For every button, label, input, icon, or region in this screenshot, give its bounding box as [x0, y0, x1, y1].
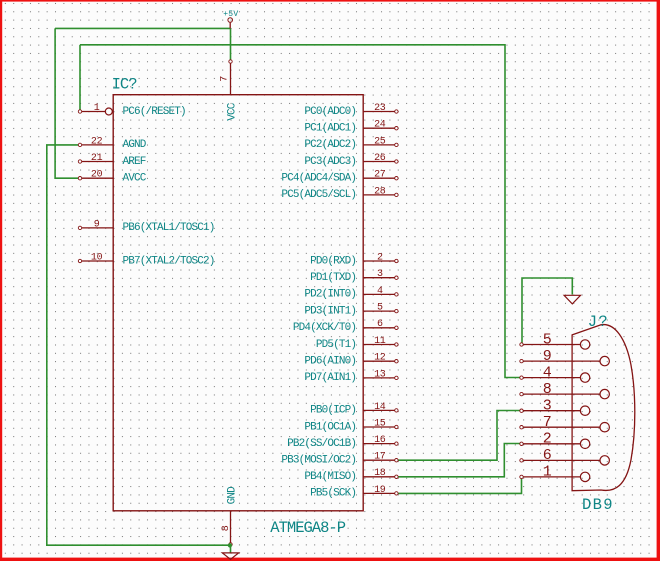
svg-text:PB0(ICP): PB0(ICP) — [310, 405, 356, 417]
svg-text:PC2(ADC2): PC2(ADC2) — [304, 139, 356, 151]
svg-text:10: 10 — [91, 252, 103, 263]
svg-text:PC4(ADC4/SDA): PC4(ADC4/SDA) — [281, 173, 356, 185]
svg-text:5: 5 — [377, 303, 383, 314]
svg-text:VCC: VCC — [226, 102, 238, 121]
svg-text:7: 7 — [220, 76, 231, 82]
svg-text:PC6(/RESET): PC6(/RESET) — [123, 106, 186, 118]
svg-text:4: 4 — [543, 364, 552, 381]
svg-text:23: 23 — [374, 103, 386, 114]
svg-text:11: 11 — [374, 336, 386, 347]
svg-text:15: 15 — [374, 418, 386, 429]
svg-text:PB6(XTAL1/TOSC1): PB6(XTAL1/TOSC1) — [123, 222, 215, 234]
svg-text:6: 6 — [543, 447, 552, 464]
svg-text:2: 2 — [543, 431, 552, 448]
svg-text:1: 1 — [543, 464, 552, 481]
svg-text:DB9: DB9 — [582, 496, 614, 514]
svg-text:PB1(OC1A): PB1(OC1A) — [304, 421, 356, 433]
svg-text:17: 17 — [374, 452, 386, 463]
svg-text:28: 28 — [374, 186, 386, 197]
svg-text:27: 27 — [374, 170, 386, 181]
svg-text:PB2(SS/OC1B): PB2(SS/OC1B) — [287, 438, 356, 450]
svg-text:PD0(RXD): PD0(RXD) — [310, 255, 356, 267]
svg-text:6: 6 — [377, 319, 383, 330]
svg-text:ATMEGA8-P: ATMEGA8-P — [270, 519, 345, 537]
svg-text:PB7(XTAL2/TOSC2): PB7(XTAL2/TOSC2) — [123, 255, 215, 267]
svg-text:25: 25 — [374, 136, 386, 147]
svg-text:PD2(INT0): PD2(INT0) — [304, 289, 356, 301]
svg-text:+5V: +5V — [223, 10, 238, 19]
svg-text:19: 19 — [374, 485, 386, 496]
svg-text:PD4(XCK/T0): PD4(XCK/T0) — [293, 322, 356, 334]
svg-text:PC5(ADC5/SCL): PC5(ADC5/SCL) — [281, 189, 356, 201]
svg-text:9: 9 — [543, 348, 552, 365]
svg-text:PD7(AIN1): PD7(AIN1) — [304, 372, 356, 384]
svg-text:PB3(MOSI/OC2): PB3(MOSI/OC2) — [281, 455, 356, 467]
svg-text:21: 21 — [91, 153, 103, 164]
svg-text:13: 13 — [374, 369, 386, 380]
svg-text:3: 3 — [377, 269, 383, 280]
svg-text:8: 8 — [543, 381, 552, 398]
svg-text:9: 9 — [94, 219, 100, 230]
svg-text:8: 8 — [221, 525, 232, 531]
svg-text:1: 1 — [94, 103, 100, 114]
svg-text:12: 12 — [374, 353, 386, 364]
svg-text:PC1(ADC1): PC1(ADC1) — [304, 123, 356, 135]
svg-text:22: 22 — [91, 136, 103, 147]
svg-text:AGND: AGND — [123, 139, 147, 151]
svg-text:5: 5 — [543, 331, 552, 348]
svg-text:IC?: IC? — [112, 75, 138, 93]
svg-text:2: 2 — [377, 252, 383, 263]
svg-text:3: 3 — [543, 398, 552, 415]
svg-text:20: 20 — [91, 170, 103, 181]
svg-text:18: 18 — [374, 468, 386, 479]
svg-text:J?: J? — [588, 313, 609, 331]
svg-text:24: 24 — [374, 120, 386, 131]
svg-text:PD6(AIN0): PD6(AIN0) — [304, 356, 356, 368]
svg-text:AREF: AREF — [123, 156, 146, 168]
svg-text:AVCC: AVCC — [123, 173, 147, 185]
svg-text:26: 26 — [374, 153, 386, 164]
svg-text:GND: GND — [226, 486, 238, 505]
svg-text:16: 16 — [374, 435, 386, 446]
svg-text:PC0(ADC0): PC0(ADC0) — [304, 106, 356, 118]
svg-text:7: 7 — [543, 414, 552, 431]
svg-text:4: 4 — [377, 286, 383, 297]
svg-text:PB4(MISO): PB4(MISO) — [304, 471, 356, 483]
svg-text:PD1(TXD): PD1(TXD) — [310, 272, 356, 284]
svg-text:PC3(ADC3): PC3(ADC3) — [304, 156, 356, 168]
svg-text:PD5(T1): PD5(T1) — [316, 339, 356, 351]
svg-text:14: 14 — [374, 402, 386, 413]
svg-text:PB5(SCK): PB5(SCK) — [310, 488, 356, 500]
svg-text:PD3(INT1): PD3(INT1) — [304, 305, 356, 317]
